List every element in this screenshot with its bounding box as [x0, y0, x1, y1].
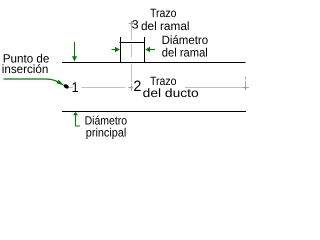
leader arrowhead (green)	[57, 80, 65, 86]
green arrow left (branch right)	[145, 47, 155, 52]
green arrow up with foot (bottom duct line)	[73, 112, 80, 126]
svg-text:principal: principal	[86, 126, 127, 140]
label background mask for node 1	[73, 80, 82, 92]
svg-text:Trazo: Trazo	[150, 6, 177, 20]
branch centerline (vertical, dashed gray)	[131, 27, 133, 83]
duct centerline end marker	[242, 77, 249, 91]
leader line from "Punto de insercion"	[4, 79, 59, 82]
svg-text:2: 2	[133, 78, 141, 95]
svg-text:del ducto: del ducto	[143, 86, 199, 100]
green arrow right (branch left)	[112, 47, 120, 52]
label background mask for node 2	[133, 79, 142, 92]
node 3 marker	[129, 21, 136, 27]
green arrow down (top duct line)	[72, 42, 77, 62]
duct centerline (horizontal gray)	[69, 87, 244, 89]
svg-text:3: 3	[132, 17, 139, 31]
node 2 marker	[128, 84, 135, 92]
branch top cap	[120, 42, 146, 44]
svg-text:1: 1	[72, 79, 79, 95]
svg-text:del ramal: del ramal	[162, 46, 208, 60]
label background mask for "del ducto"	[142, 88, 199, 99]
duct top line	[62, 62, 246, 64]
svg-text:inserción: inserción	[2, 62, 49, 76]
svg-text:del ramal: del ramal	[141, 19, 190, 33]
branch right wall	[144, 37, 146, 62]
duct bottom line	[62, 111, 246, 113]
node 1 point (black)	[63, 83, 70, 89]
branch left wall	[120, 37, 122, 62]
